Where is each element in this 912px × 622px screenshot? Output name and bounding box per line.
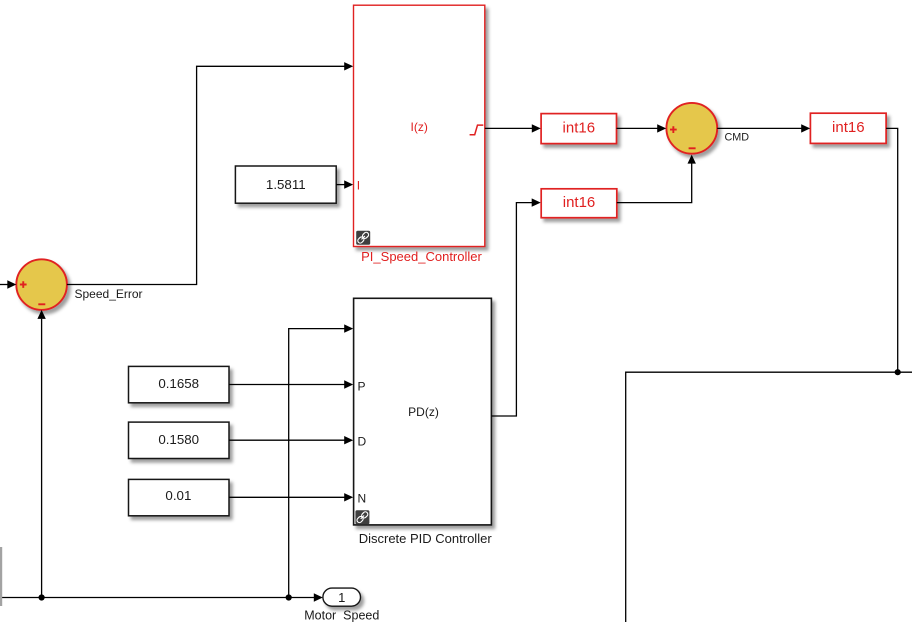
svg-text:D: D [358,435,367,449]
constant block 0.01 [129,479,230,515]
wire: Discrete PID Controller output to int16 (lower) [491,198,540,416]
svg-text:int16: int16 [563,119,596,136]
wire: motor speed bus horizontal to output port 1 [0,593,323,601]
data type conversion block int16 (top) [541,114,616,144]
wire: PI_Speed_Controller output to int16 (top) [485,124,541,132]
svg-text:PI_Speed_Controller: PI_Speed_Controller [361,249,482,264]
subsystem block PI_Speed_Controller [354,5,485,246]
library link badge on Discrete PID Controller [355,510,369,524]
output port block 1 (Motor Speed) [323,588,361,606]
data type conversion block int16 (right) [810,113,886,143]
svg-text:int16: int16 [832,119,865,136]
data type conversion block int16 (lower) [541,189,617,218]
partial block edge at canvas left [0,547,2,606]
wire: Speed_Error sum output to PI_Speed_Controller input [67,62,353,284]
wire: constant 0.01 to N port [229,493,353,501]
svg-text:Speed_Error: Speed_Error [75,287,143,301]
svg-text:N: N [358,492,367,506]
wire: constant 0.1658 to P port [229,380,353,388]
sum block CMD (Sum2) [666,103,717,154]
constant block 0.1580 [129,422,230,458]
svg-text:0.01: 0.01 [165,488,191,503]
svg-text:Discrete PID Controller: Discrete PID Controller [359,531,493,546]
svg-text:I(z): I(z) [411,120,428,134]
svg-text:I: I [357,178,360,192]
svg-text:1: 1 [338,590,345,605]
subsystem block Discrete PID Controller [354,298,492,525]
wire: CMD sum output to int16 (right) [717,124,810,132]
wire: constant 0.1580 to D port [229,436,353,444]
wire: int16 (right) output down to lower bus [886,128,898,372]
junction on lower bus [895,369,901,375]
svg-text:1.5811: 1.5811 [266,177,306,192]
wire: feedback into Speed_Error sum minus port [37,310,45,598]
wire: constant 1.5811 to PI_Speed_Controller I port [336,180,353,188]
wire: external input into Speed_Error sum plus port [0,280,16,288]
wire: int16 (lower) to CMD sum minus port [617,155,696,203]
constant block 1.5811 [235,166,336,203]
junction: motor speed bus to Speed_Error feedback [39,594,45,600]
svg-text:Motor Speed: Motor Speed [304,609,379,622]
wire: lower bus horizontal and down at left [626,372,912,622]
svg-text:CMD: CMD [725,132,750,144]
constant block 0.1658 [129,366,230,402]
svg-text:P: P [358,379,366,393]
svg-text:0.1658: 0.1658 [158,376,199,391]
svg-text:PD(z): PD(z) [408,405,439,419]
sum block Speed_Error (Sum1) [16,259,67,310]
svg-text:0.1580: 0.1580 [158,432,199,447]
wire: int16 (top) to CMD sum plus port [617,124,667,132]
svg-text:int16: int16 [563,194,596,211]
junction: motor speed bus to PID feedback [286,594,292,600]
wire: motor speed feedback up to Discrete PID Controller top input [289,324,354,597]
library link badge on PI_Speed_Controller [356,231,370,245]
